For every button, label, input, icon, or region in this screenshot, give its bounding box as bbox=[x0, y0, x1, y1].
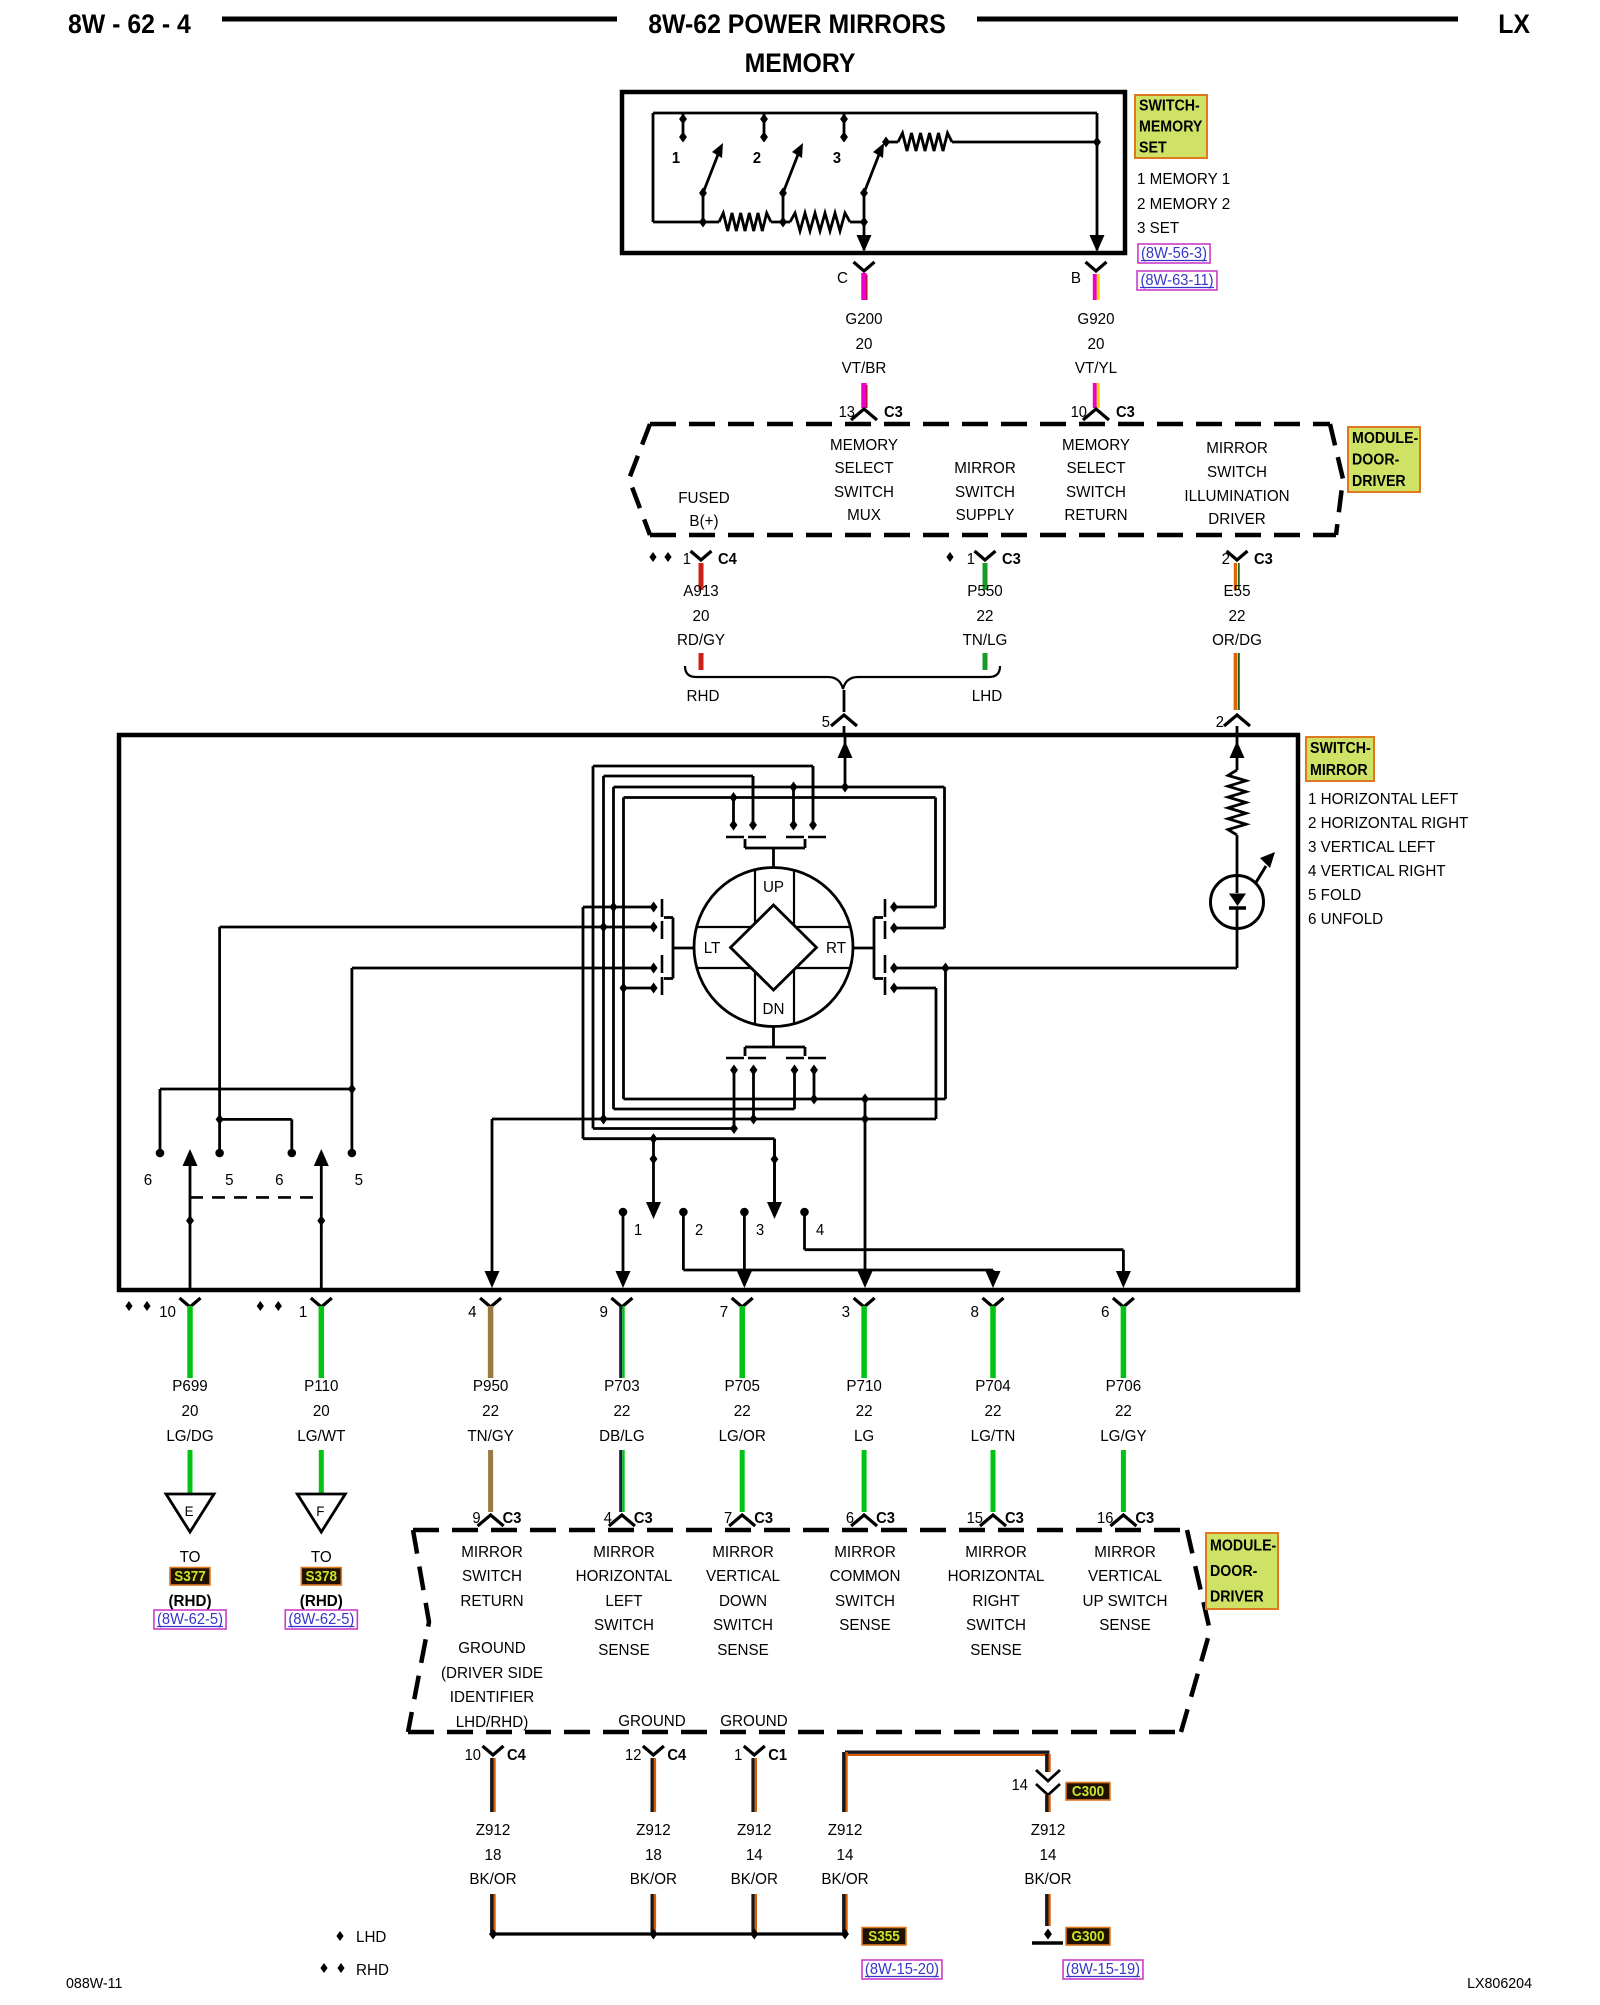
joystick contact 4 bbox=[800, 1208, 809, 1217]
link 8W-15-19 bbox=[1063, 1960, 1143, 1979]
wire bus b4 bbox=[593, 1127, 734, 1130]
svg-text:UP SWITCH: UP SWITCH bbox=[1083, 1593, 1168, 1610]
svg-text:14: 14 bbox=[1040, 1847, 1057, 1864]
svg-text:3 SET: 3 SET bbox=[1137, 220, 1180, 237]
transistor Q3 channel and gate bbox=[661, 899, 664, 917]
svg-text:SET: SET bbox=[1139, 139, 1167, 157]
svg-text:SWITCH-: SWITCH- bbox=[1139, 97, 1200, 115]
wire E55 long segment OR/DG bbox=[1234, 653, 1238, 710]
wire P550 lower stub TN/LG bbox=[983, 653, 988, 670]
svg-text:14: 14 bbox=[1012, 1777, 1028, 1794]
svg-text:LG/OR: LG/OR bbox=[719, 1428, 766, 1445]
svg-text:6: 6 bbox=[1101, 1304, 1109, 1321]
wire P704 upper segment LG/TN bbox=[990, 1306, 996, 1378]
RHD LHD joining brace bbox=[685, 666, 1000, 689]
link 8W-62-5 S377 bbox=[154, 1610, 226, 1629]
wire left drain row B bbox=[220, 926, 654, 929]
svg-text:(RHD): (RHD) bbox=[300, 1593, 343, 1610]
svg-text:P699: P699 bbox=[172, 1378, 207, 1395]
svg-text:20: 20 bbox=[856, 336, 873, 353]
svg-text:1: 1 bbox=[683, 551, 691, 568]
svg-text:VT/YL: VT/YL bbox=[1075, 360, 1118, 377]
svg-text:9: 9 bbox=[599, 1304, 607, 1321]
svg-text:SWITCH: SWITCH bbox=[966, 1617, 1026, 1634]
svg-text:DB/LG: DB/LG bbox=[599, 1428, 645, 1445]
svg-text:8W-62 POWER MIRRORS: 8W-62 POWER MIRRORS bbox=[648, 10, 946, 39]
svg-text:SWITCH: SWITCH bbox=[713, 1617, 773, 1634]
svg-text:MIRROR: MIRROR bbox=[954, 460, 1016, 477]
wire contact2 to pin8 bbox=[683, 1269, 993, 1272]
wire Z912 C4 lower segment BK/OR bbox=[651, 1894, 654, 1932]
svg-text:22: 22 bbox=[985, 1403, 1002, 1420]
joystick contact 3 bbox=[740, 1208, 749, 1217]
pin 1 C3 connector with LHD diamond bbox=[946, 552, 953, 562]
svg-text:MEMORY: MEMORY bbox=[1062, 437, 1131, 454]
svg-text:3 VERTICAL LEFT: 3 VERTICAL LEFT bbox=[1308, 839, 1436, 856]
svg-text:1: 1 bbox=[672, 150, 680, 167]
wire A913 upper stub RD/GY bbox=[699, 563, 704, 590]
svg-text:TO: TO bbox=[180, 1549, 201, 1566]
svg-text:P950: P950 bbox=[473, 1378, 509, 1395]
LED mirror switch illumination bbox=[1211, 876, 1264, 929]
svg-text:GROUND: GROUND bbox=[458, 1640, 526, 1657]
wire bus b2 bbox=[614, 1108, 795, 1111]
svg-text:BK/OR: BK/OR bbox=[1024, 1871, 1071, 1888]
memory set switch S3 post bbox=[843, 113, 846, 141]
svg-text:E55: E55 bbox=[1223, 583, 1250, 600]
mirror switch pin 1 connector bbox=[257, 1301, 264, 1311]
label MODULE-DOOR-DRIVER upper bbox=[1348, 427, 1420, 492]
memory set switch S2 arm bbox=[783, 152, 799, 193]
svg-text:2: 2 bbox=[695, 1221, 703, 1239]
wire left drain row A bbox=[583, 906, 654, 909]
svg-text:MEMORY: MEMORY bbox=[1139, 118, 1202, 136]
mirror switch pin 10 connector bbox=[125, 1301, 132, 1311]
memory set inner bus left wire bbox=[652, 113, 655, 222]
svg-text:20: 20 bbox=[182, 1403, 199, 1420]
svg-text:P705: P705 bbox=[724, 1378, 760, 1395]
module door driver upper box bbox=[650, 422, 1330, 427]
fold switch wire A bbox=[160, 1088, 352, 1091]
svg-text:G300: G300 bbox=[1072, 1928, 1105, 1945]
memory set inner bus bottom wire bbox=[653, 221, 719, 224]
memory set output wire C bbox=[863, 222, 866, 250]
svg-text:C3: C3 bbox=[876, 1510, 895, 1527]
svg-text:MIRROR: MIRROR bbox=[593, 1544, 655, 1561]
splice S355 label bbox=[862, 1928, 906, 1946]
svg-text:MIRROR: MIRROR bbox=[1094, 1544, 1156, 1561]
transistor Q1 drains bbox=[732, 798, 735, 828]
svg-text:P703: P703 bbox=[604, 1378, 639, 1395]
memory set switch outer box bbox=[622, 92, 1125, 253]
svg-text:8: 8 bbox=[971, 1304, 979, 1321]
wire P703 upper segment DB/LG bbox=[619, 1306, 622, 1378]
svg-text:HORIZONTAL: HORIZONTAL bbox=[576, 1568, 673, 1585]
svg-text:LHD/RHD): LHD/RHD) bbox=[456, 1714, 529, 1731]
svg-text:BK/OR: BK/OR bbox=[731, 1871, 778, 1888]
wire G200 upper segment VT/BR bbox=[861, 273, 867, 300]
label SWITCH-MIRROR bbox=[1306, 737, 1374, 781]
svg-text:G200: G200 bbox=[845, 311, 882, 328]
wire Z912 C300 lower segment bbox=[1045, 1894, 1048, 1926]
transistor Q1 channel and gate bbox=[726, 836, 744, 839]
svg-text:14: 14 bbox=[746, 1847, 763, 1864]
svg-text:MIRROR: MIRROR bbox=[1206, 440, 1268, 457]
svg-text:B: B bbox=[1071, 270, 1081, 287]
svg-text:12: 12 bbox=[625, 1747, 641, 1764]
svg-text:LX: LX bbox=[1498, 10, 1530, 39]
svg-text:C3: C3 bbox=[1116, 404, 1135, 421]
svg-text:5: 5 bbox=[225, 1172, 234, 1189]
svg-text:C1: C1 bbox=[768, 1747, 787, 1764]
wire P710 lower segment LG bbox=[862, 1450, 867, 1512]
svg-text:DRIVER: DRIVER bbox=[1352, 473, 1406, 491]
svg-text:G920: G920 bbox=[1077, 311, 1114, 328]
wire G200 lower segment VT/BR bbox=[861, 383, 867, 408]
svg-text:14: 14 bbox=[837, 1847, 854, 1864]
svg-text:S355: S355 bbox=[868, 1928, 900, 1945]
wire P950 lower segment TN/GY bbox=[488, 1450, 493, 1512]
svg-text:VERTICAL: VERTICAL bbox=[1088, 1568, 1162, 1585]
svg-text:2: 2 bbox=[1216, 714, 1224, 731]
svg-text:SENSE: SENSE bbox=[598, 1642, 650, 1659]
svg-text:1: 1 bbox=[967, 551, 975, 568]
wire P950 upper segment TN/GY bbox=[488, 1306, 494, 1378]
svg-text:C3: C3 bbox=[1005, 1510, 1024, 1527]
pin 1 C4 connector with RHD diamonds bbox=[649, 552, 656, 562]
svg-text:B(+): B(+) bbox=[689, 513, 718, 530]
svg-text:10: 10 bbox=[465, 1747, 481, 1764]
svg-text:(DRIVER SIDE: (DRIVER SIDE bbox=[441, 1665, 543, 1682]
svg-text:LG/DG: LG/DG bbox=[166, 1428, 213, 1445]
fold switch contact 6 left bbox=[159, 1089, 162, 1151]
svg-text:SENSE: SENSE bbox=[1099, 1617, 1151, 1634]
svg-text:22: 22 bbox=[977, 608, 994, 625]
svg-text:P550: P550 bbox=[967, 583, 1003, 600]
transistor Q4 drains bbox=[890, 902, 898, 913]
svg-text:BK/OR: BK/OR bbox=[469, 1871, 516, 1888]
svg-text:6: 6 bbox=[144, 1172, 152, 1189]
svg-text:C4: C4 bbox=[718, 551, 737, 568]
svg-text:DRIVER: DRIVER bbox=[1208, 511, 1265, 528]
svg-text:RT: RT bbox=[826, 940, 846, 957]
svg-text:22: 22 bbox=[1229, 608, 1246, 625]
svg-text:MIRROR: MIRROR bbox=[965, 1544, 1027, 1561]
svg-text:2: 2 bbox=[753, 150, 761, 167]
link 8W-56-3 bbox=[1138, 244, 1210, 263]
wire Z912 tap lower segment bbox=[842, 1894, 845, 1932]
svg-text:18: 18 bbox=[485, 1847, 502, 1864]
wire Z912 C1 lower segment BK/OR bbox=[751, 1894, 754, 1932]
svg-text:5: 5 bbox=[355, 1172, 364, 1189]
svg-text:20: 20 bbox=[1088, 336, 1105, 353]
svg-text:3: 3 bbox=[756, 1221, 764, 1239]
memory set switch S2 contact wire bbox=[782, 193, 785, 222]
wire A913 lower stub RD/GY bbox=[699, 653, 704, 670]
svg-text:5: 5 bbox=[822, 714, 830, 731]
wire P110 upper segment LG/WT bbox=[319, 1306, 325, 1378]
svg-text:SWITCH: SWITCH bbox=[594, 1617, 654, 1634]
memory set switch S1 contact wire bbox=[702, 193, 705, 222]
joystick pole wiper right bbox=[773, 1139, 776, 1203]
wire P705 upper segment LG/OR bbox=[739, 1306, 745, 1378]
transistor Q2 channel and gate bbox=[745, 1046, 805, 1049]
svg-text:C4: C4 bbox=[507, 1747, 526, 1764]
svg-text:4: 4 bbox=[468, 1304, 477, 1321]
module door driver lower box bbox=[413, 1528, 1187, 1533]
ground G300 label bbox=[1066, 1928, 1110, 1946]
svg-text:LG/WT: LG/WT bbox=[297, 1428, 346, 1445]
resistor mirror illumination bbox=[1228, 770, 1246, 835]
svg-text:SWITCH: SWITCH bbox=[1066, 484, 1126, 501]
svg-text:E: E bbox=[185, 1504, 194, 1519]
wire P699 lower segment bbox=[188, 1450, 193, 1494]
wire P110 lower segment bbox=[319, 1450, 324, 1494]
wire Z912 tap branch BK/OR bbox=[845, 1750, 1050, 1753]
fold switch pole 1 bbox=[320, 1165, 323, 1288]
wire supply entry 5 bbox=[844, 737, 847, 787]
wire G920 lower segment VT/YL bbox=[1093, 383, 1097, 408]
memory set wire R2 to node C bbox=[850, 221, 864, 224]
svg-text:P110: P110 bbox=[304, 1378, 339, 1395]
link 8W-62-5 S378 bbox=[285, 1610, 357, 1629]
svg-text:SUPPLY: SUPPLY bbox=[956, 507, 1015, 524]
memory set resistor R2 bbox=[790, 213, 850, 231]
svg-text:P710: P710 bbox=[846, 1378, 882, 1395]
wire G920 upper segment VT/YL bbox=[1093, 274, 1097, 300]
svg-text:6 UNFOLD: 6 UNFOLD bbox=[1308, 911, 1383, 928]
svg-text:C3: C3 bbox=[754, 1510, 773, 1527]
legend LHD diamond bbox=[336, 1931, 343, 1941]
memory set switch S3 contact wire bbox=[863, 193, 866, 222]
svg-text:VT/BR: VT/BR bbox=[842, 360, 887, 377]
svg-text:22: 22 bbox=[734, 1403, 751, 1420]
wire P705 lower segment LG/OR bbox=[740, 1450, 745, 1512]
ground G300 symbol bbox=[1044, 1929, 1052, 1940]
svg-text:LHD: LHD bbox=[356, 1929, 386, 1946]
svg-text:C3: C3 bbox=[634, 1510, 653, 1527]
svg-text:S378: S378 bbox=[306, 1568, 338, 1585]
wire bus h1 bbox=[593, 765, 813, 768]
header rule left bbox=[222, 17, 617, 22]
svg-text:GROUND: GROUND bbox=[720, 1713, 788, 1730]
svg-text:7: 7 bbox=[720, 1304, 728, 1321]
svg-text:10: 10 bbox=[159, 1304, 176, 1321]
svg-text:RHD: RHD bbox=[687, 688, 720, 705]
svg-text:8W - 62 - 4: 8W - 62 - 4 bbox=[68, 10, 191, 39]
svg-text:Z912: Z912 bbox=[636, 1822, 671, 1839]
svg-text:22: 22 bbox=[856, 1403, 873, 1420]
svg-text:SWITCH: SWITCH bbox=[1207, 464, 1267, 481]
wire Z912 C300 segment BK/OR bbox=[1045, 1795, 1048, 1812]
svg-text:P706: P706 bbox=[1106, 1378, 1141, 1395]
memory set resistor R3 bbox=[886, 141, 898, 144]
wire contact4 to pin6 bbox=[805, 1248, 1124, 1251]
svg-text:1: 1 bbox=[299, 1304, 307, 1321]
svg-text:3: 3 bbox=[833, 150, 841, 167]
off-page triangle F bbox=[297, 1494, 345, 1532]
svg-text:TO: TO bbox=[311, 1549, 332, 1566]
transistor Q2 stub bbox=[772, 1027, 775, 1047]
wire bus h2 bbox=[604, 775, 754, 778]
svg-text:SELECT: SELECT bbox=[834, 460, 894, 477]
memory set output wire B bbox=[1096, 142, 1099, 250]
memory set wire R3 to right bus bbox=[952, 141, 1097, 144]
svg-text:(8W-62-5): (8W-62-5) bbox=[288, 1611, 354, 1628]
svg-text:1 HORIZONTAL LEFT: 1 HORIZONTAL LEFT bbox=[1308, 791, 1459, 808]
svg-text:LG/TN: LG/TN bbox=[971, 1428, 1016, 1445]
joystick contact 2 bbox=[679, 1208, 688, 1217]
svg-text:SENSE: SENSE bbox=[970, 1642, 1022, 1659]
svg-text:1: 1 bbox=[634, 1221, 642, 1239]
svg-text:22: 22 bbox=[1115, 1403, 1132, 1420]
svg-text:2 MEMORY 2: 2 MEMORY 2 bbox=[1137, 196, 1230, 213]
svg-text:VERTICAL: VERTICAL bbox=[706, 1568, 780, 1585]
label MODULE-DOOR-DRIVER lower bbox=[1206, 1533, 1278, 1609]
svg-text:RD/GY: RD/GY bbox=[677, 632, 726, 649]
node 5 connector into mirror switch bbox=[843, 690, 846, 712]
svg-text:Z912: Z912 bbox=[828, 1822, 863, 1839]
svg-text:OR/DG: OR/DG bbox=[1212, 632, 1262, 649]
svg-text:Z912: Z912 bbox=[476, 1822, 511, 1839]
svg-text:20: 20 bbox=[693, 608, 710, 625]
memory set switch S3 arm bbox=[864, 152, 880, 193]
wire bus b5 bbox=[583, 1137, 775, 1140]
wire P710 upper segment LG bbox=[861, 1306, 867, 1378]
label SWITCH-MEMORY-SET bbox=[1135, 95, 1207, 158]
svg-text:RETURN: RETURN bbox=[1064, 507, 1127, 524]
svg-text:SENSE: SENSE bbox=[717, 1642, 769, 1659]
joystick pole wiper left bbox=[652, 1139, 655, 1203]
wire Z912 C4 upper segment BK/OR bbox=[490, 1758, 493, 1812]
wire Z912 C4 upper segment BK/OR bbox=[651, 1758, 654, 1812]
svg-text:TN/LG: TN/LG bbox=[963, 632, 1008, 649]
memory set switch S1 arm bbox=[703, 152, 719, 193]
svg-text:S377: S377 bbox=[174, 1568, 206, 1585]
fold switch crosslink wire bbox=[220, 1118, 292, 1121]
svg-text:20: 20 bbox=[313, 1403, 330, 1420]
svg-text:6: 6 bbox=[275, 1172, 283, 1189]
svg-text:LG/GY: LG/GY bbox=[1100, 1428, 1147, 1445]
svg-text:LX806204: LX806204 bbox=[1467, 1976, 1532, 1992]
fold switch contact 5 left bbox=[215, 1149, 224, 1158]
svg-text:UP: UP bbox=[763, 879, 784, 896]
wire left drain row D bbox=[624, 987, 654, 990]
wire E55 upper stub OR/DG bbox=[1234, 563, 1237, 590]
connector 14 C300 in-line bbox=[1045, 1754, 1048, 1772]
svg-text:22: 22 bbox=[613, 1403, 630, 1420]
svg-text:MIRROR: MIRROR bbox=[834, 1544, 896, 1561]
memory set inner bus top wire bbox=[653, 112, 1097, 115]
svg-text:C300: C300 bbox=[1072, 1783, 1104, 1800]
svg-text:SWITCH: SWITCH bbox=[462, 1568, 522, 1585]
wire P550 upper stub TN/LG bbox=[983, 563, 988, 590]
svg-text:MIRROR: MIRROR bbox=[461, 1544, 523, 1561]
svg-text:A913: A913 bbox=[683, 583, 718, 600]
link 8W-63-11 bbox=[1137, 271, 1217, 290]
svg-text:5 FOLD: 5 FOLD bbox=[1308, 887, 1361, 904]
wire LED cathode down bbox=[1236, 927, 1239, 968]
svg-text:C3: C3 bbox=[1002, 551, 1021, 568]
LED light arrow bbox=[1255, 866, 1266, 884]
svg-text:LG: LG bbox=[854, 1428, 874, 1445]
svg-text:DOWN: DOWN bbox=[719, 1593, 767, 1610]
svg-text:SWITCH: SWITCH bbox=[955, 484, 1015, 501]
svg-text:SWITCH-: SWITCH- bbox=[1310, 739, 1371, 757]
wire P706 upper segment LG/GY bbox=[1121, 1306, 1127, 1378]
svg-text:MODULE-: MODULE- bbox=[1352, 429, 1418, 447]
wire P703 lower segment DB/LG bbox=[619, 1450, 622, 1512]
svg-text:C3: C3 bbox=[884, 404, 903, 421]
svg-text:(8W-63-11): (8W-63-11) bbox=[1140, 272, 1213, 289]
svg-text:DRIVER: DRIVER bbox=[1210, 1588, 1264, 1606]
wire bus b3 bbox=[492, 1118, 936, 1121]
svg-text:COMMON: COMMON bbox=[830, 1568, 901, 1585]
svg-text:MIRROR: MIRROR bbox=[1310, 761, 1368, 779]
svg-text:SWITCH: SWITCH bbox=[834, 484, 894, 501]
fold switch pole 10 bbox=[189, 1165, 192, 1288]
memory set switch S2 post bbox=[763, 113, 766, 141]
wire Z912 C1 upper segment BK/OR bbox=[751, 1758, 754, 1812]
svg-text:MEMORY: MEMORY bbox=[830, 437, 899, 454]
wire resistor to LED bbox=[1236, 835, 1239, 877]
svg-text:DN: DN bbox=[763, 1001, 785, 1018]
svg-text:4 VERTICAL RIGHT: 4 VERTICAL RIGHT bbox=[1308, 863, 1446, 880]
svg-text:RIGHT: RIGHT bbox=[972, 1593, 1020, 1610]
svg-text:(8W-56-3): (8W-56-3) bbox=[1141, 245, 1207, 262]
link 8W-15-20 bbox=[862, 1960, 942, 1979]
svg-text:2 HORIZONTAL RIGHT: 2 HORIZONTAL RIGHT bbox=[1308, 815, 1469, 832]
svg-text:RETURN: RETURN bbox=[460, 1593, 523, 1610]
svg-text:18: 18 bbox=[645, 1847, 662, 1864]
svg-text:LEFT: LEFT bbox=[605, 1593, 643, 1610]
svg-text:F: F bbox=[316, 1504, 324, 1519]
svg-text:088W-11: 088W-11 bbox=[66, 1976, 122, 1992]
svg-text:LT: LT bbox=[704, 940, 721, 957]
svg-text:(8W-15-19): (8W-15-19) bbox=[1066, 1961, 1140, 1978]
legend RHD diamonds bbox=[320, 1963, 327, 1973]
splice bus to S355 bbox=[493, 1932, 845, 1935]
svg-text:MODULE-: MODULE- bbox=[1210, 1537, 1276, 1555]
svg-text:DOOR-: DOOR- bbox=[1210, 1562, 1257, 1580]
svg-text:C4: C4 bbox=[667, 1747, 686, 1764]
wire right drain row to LED bbox=[894, 967, 1237, 970]
transistor Q3 drains bbox=[650, 902, 658, 913]
transistor Q2 sources bbox=[733, 1068, 736, 1129]
header rule right bbox=[977, 17, 1458, 22]
svg-text:22: 22 bbox=[482, 1403, 499, 1420]
svg-text:1 MEMORY 1: 1 MEMORY 1 bbox=[1137, 171, 1230, 188]
joystick diamond bbox=[731, 905, 817, 990]
svg-text:DOOR-: DOOR- bbox=[1352, 451, 1399, 469]
svg-text:(8W-62-5): (8W-62-5) bbox=[157, 1611, 223, 1628]
memory set wire R1-R2 bbox=[771, 221, 790, 224]
svg-text:GROUND: GROUND bbox=[618, 1713, 686, 1730]
svg-text:1: 1 bbox=[734, 1747, 742, 1764]
memory set right bus wire bbox=[1096, 113, 1099, 142]
svg-text:Z912: Z912 bbox=[1031, 1822, 1066, 1839]
svg-text:ILLUMINATION: ILLUMINATION bbox=[1184, 488, 1289, 505]
svg-text:BK/OR: BK/OR bbox=[821, 1871, 868, 1888]
svg-text:TN/GY: TN/GY bbox=[467, 1428, 514, 1445]
fold switch mechanical link bbox=[190, 1196, 321, 1199]
wire P699 upper segment LG/DG bbox=[187, 1306, 193, 1378]
svg-text:HORIZONTAL: HORIZONTAL bbox=[948, 1568, 1045, 1585]
svg-text:C3: C3 bbox=[503, 1510, 522, 1527]
off-page triangle E bbox=[166, 1494, 214, 1532]
svg-text:MEMORY: MEMORY bbox=[745, 49, 856, 78]
mirror switch joystick circle bbox=[694, 868, 853, 1027]
